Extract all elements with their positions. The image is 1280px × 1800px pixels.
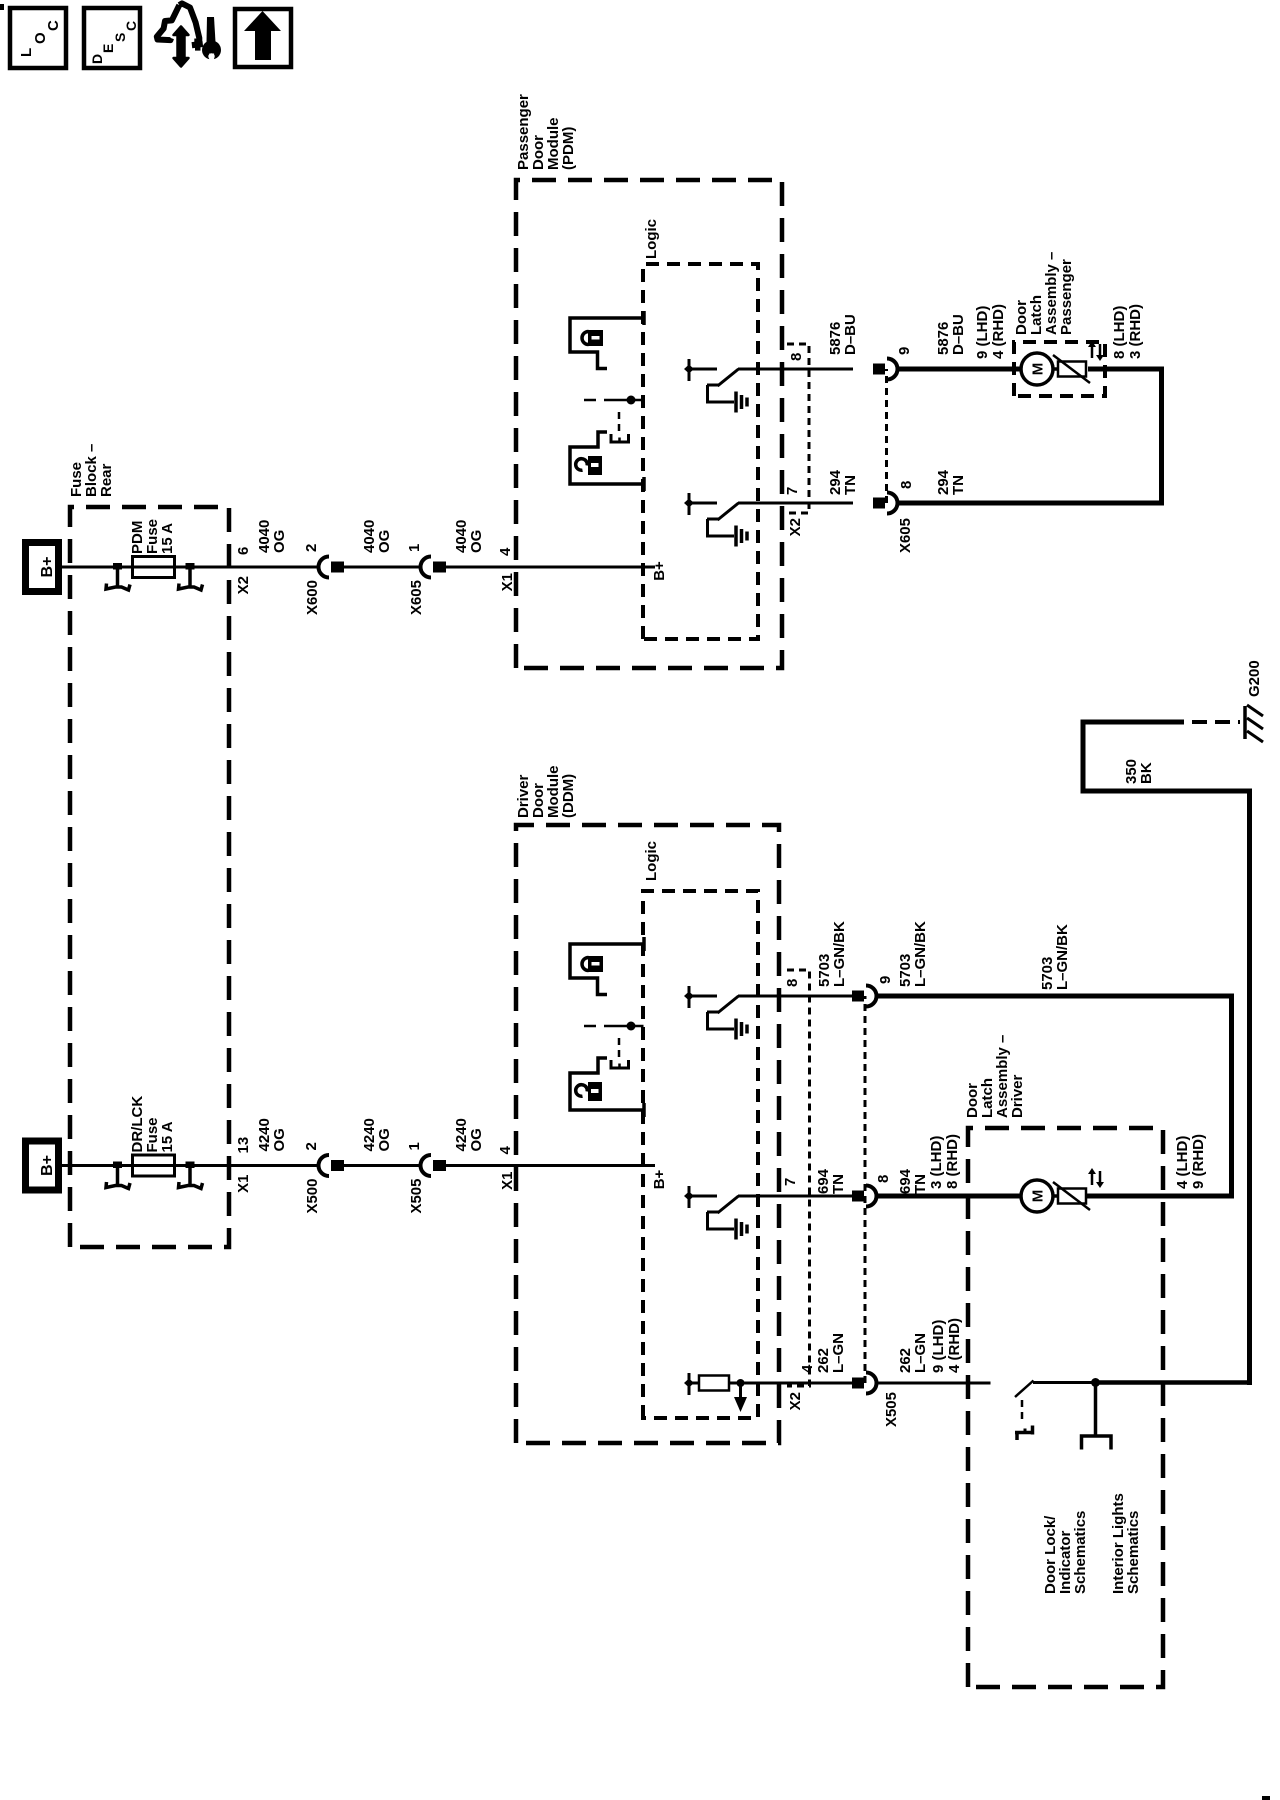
- status arrow: [739, 1386, 742, 1407]
- svg-text:E: E: [100, 44, 116, 53]
- wire DDM pin 7 (694): [738, 1195, 853, 1198]
- svg-text:TN: TN: [842, 475, 859, 495]
- ground: [734, 392, 738, 413]
- connector X500 (driver): [319, 1155, 330, 1176]
- svg-text:O: O: [32, 32, 49, 44]
- switch linkage fork: [1015, 1431, 1019, 1440]
- wire 262 to lock switch: [877, 1382, 991, 1385]
- door lock switch blade: [1015, 1381, 1034, 1398]
- PDM lock command bracket: [570, 318, 644, 369]
- svg-text:Logic: Logic: [643, 219, 660, 259]
- connector X605 (passenger): [421, 557, 432, 578]
- svg-text:X1: X1: [499, 1172, 516, 1190]
- svg-text:6: 6: [235, 547, 252, 555]
- svg-text:C: C: [45, 20, 62, 31]
- switch command tick at x=1431: [688, 359, 691, 381]
- svg-text:X600: X600: [304, 580, 321, 615]
- X2 connector bracket (DDM): [787, 970, 810, 1386]
- wire DDM pin 4 (262): [740, 1382, 853, 1385]
- svg-text:7: 7: [782, 1178, 799, 1186]
- ground G200: [1243, 706, 1247, 739]
- driver door latch box: [968, 1128, 1163, 1687]
- DDM lock command bracket: [570, 944, 644, 995]
- PDM unlock linkage fork: [611, 434, 629, 442]
- tap to interior lights: [1094, 1383, 1098, 1437]
- svg-text:9 (LHD): 9 (LHD): [974, 306, 991, 359]
- wire to G200 (dashed): [1192, 720, 1240, 724]
- B+ terminal (driver): [26, 1141, 59, 1190]
- DDM lock icon: [582, 958, 588, 971]
- svg-text:X605: X605: [897, 518, 914, 553]
- switch: [689, 368, 717, 371]
- motor M driver: [1021, 1180, 1053, 1212]
- wire motor return: [1086, 1194, 1234, 1199]
- svg-text:8: 8: [784, 979, 801, 987]
- page corner mark: [1262, 1796, 1270, 1800]
- svg-text:1: 1: [406, 544, 423, 552]
- connector X505 (driver): [421, 1155, 432, 1176]
- passenger door latch box: [1014, 342, 1105, 396]
- svg-text:G200: G200: [1246, 660, 1263, 697]
- wire (driver): [344, 1164, 420, 1167]
- svg-text:13: 13: [235, 1137, 252, 1154]
- svg-text:OG: OG: [271, 1128, 288, 1151]
- svg-text:8: 8: [875, 1175, 892, 1183]
- svg-text:Passenger: Passenger: [1058, 259, 1075, 335]
- fuse PDM 15 A (passenger): [133, 557, 175, 578]
- svg-text:(DDM): (DDM): [560, 774, 577, 818]
- DDM linkage dashes: [618, 1033, 621, 1057]
- svg-text:Rear: Rear: [98, 463, 115, 497]
- corner mark: [0, 4, 4, 10]
- svg-text:X2: X2: [787, 1392, 804, 1410]
- switch linkage dashes: [1021, 1400, 1024, 1422]
- junction: [737, 1379, 745, 1387]
- svg-text:(PDM): (PDM): [560, 127, 577, 170]
- wire lock switch common: [1033, 1381, 1096, 1384]
- svg-text:BK: BK: [1138, 762, 1155, 784]
- svg-text:B+: B+: [39, 1155, 56, 1176]
- svg-text:X1: X1: [499, 573, 516, 591]
- wire B+ to fuse (passenger): [62, 566, 133, 569]
- wire DDM pin 8 (5703): [738, 995, 853, 998]
- svg-text:8: 8: [788, 353, 805, 361]
- wire 694 to motor: [876, 1194, 1022, 1199]
- svg-text:4 (RHD): 4 (RHD): [946, 1318, 963, 1373]
- wire PDM pin 8 (5876): [738, 368, 853, 371]
- icon LOC button: [10, 8, 66, 68]
- svg-text:OG: OG: [468, 1128, 485, 1151]
- connector X505 pin 4: [852, 1378, 864, 1389]
- svg-text:X1: X1: [235, 1175, 252, 1193]
- ground: [734, 1019, 738, 1040]
- wire PDM pin 7 (294): [738, 502, 853, 505]
- switch: [689, 995, 717, 998]
- svg-text:D–BU: D–BU: [842, 314, 859, 355]
- svg-text:L–GN/BK: L–GN/BK: [831, 921, 848, 987]
- PDM lock icon: [582, 332, 588, 345]
- svg-text:4 (LHD): 4 (LHD): [1174, 1136, 1191, 1189]
- icon DESC button: [84, 8, 140, 68]
- fuse DR/LCK 15 A (driver): [133, 1155, 175, 1176]
- DDM lock command line: [584, 1025, 596, 1028]
- switch command tick at x=604: [688, 1186, 691, 1208]
- PTC passenger: [1053, 367, 1058, 371]
- wire B+ to fuse (driver): [62, 1164, 133, 1167]
- junction node: [1091, 1378, 1100, 1387]
- X605 connector line: [885, 369, 888, 503]
- icon arrows and wrench: [157, 3, 201, 47]
- PDM logic box: [643, 264, 758, 639]
- switch command tick at x=1297: [688, 493, 691, 515]
- svg-text:X2: X2: [787, 518, 804, 536]
- svg-text:9 (RHD): 9 (RHD): [1190, 1134, 1207, 1189]
- switch command tick at x=804: [688, 986, 691, 1008]
- wire (passenger): [344, 566, 420, 569]
- svg-text:OG: OG: [468, 530, 485, 553]
- B+ terminal (passenger): [26, 543, 59, 592]
- svg-text:D–BU: D–BU: [950, 314, 967, 355]
- wire 294 return: [897, 501, 1164, 506]
- ground: [734, 526, 738, 547]
- svg-text:C: C: [123, 21, 139, 31]
- svg-text:Schematics: Schematics: [1072, 1511, 1089, 1594]
- connector X505 pin 9: [852, 991, 864, 1002]
- fuse block box: [70, 507, 229, 1247]
- PTC driver: [1053, 1194, 1058, 1198]
- wire 5876 to latch: [897, 367, 1022, 372]
- svg-text:TN: TN: [912, 1174, 929, 1194]
- motor M passenger: [1021, 353, 1053, 385]
- connector X605 pin 9: [873, 364, 885, 375]
- DDM unlock icon: [576, 1085, 588, 1097]
- svg-text:B+: B+: [39, 557, 56, 578]
- X2 connector bracket (PDM): [787, 344, 809, 513]
- svg-text:B+: B+: [651, 561, 668, 581]
- wire 5703 to motor loop: [876, 994, 1234, 999]
- svg-text:7: 7: [784, 487, 801, 495]
- svg-text:4: 4: [497, 547, 514, 556]
- PDM unlock command bracket: [570, 432, 644, 484]
- svg-text:TN: TN: [830, 1174, 847, 1194]
- svg-text:M: M: [1030, 1190, 1047, 1203]
- svg-text:L–GN/BK: L–GN/BK: [1054, 924, 1071, 990]
- svg-text:15 A: 15 A: [159, 523, 176, 554]
- X505 connector line: [864, 996, 867, 1383]
- svg-text:OG: OG: [376, 530, 393, 553]
- svg-text:1: 1: [406, 1142, 423, 1150]
- svg-text:D: D: [89, 54, 105, 64]
- svg-text:S: S: [112, 33, 128, 42]
- DDM door lock status resistor: [688, 1373, 691, 1395]
- connector X600 (passenger): [319, 557, 330, 578]
- PDM box: [516, 180, 782, 668]
- svg-text:OG: OG: [271, 530, 288, 553]
- svg-text:Driver: Driver: [1009, 1074, 1026, 1118]
- PDM unlock icon: [576, 459, 588, 471]
- switch: [689, 1195, 717, 1198]
- svg-text:TN: TN: [950, 475, 967, 495]
- interior lights fork: [1082, 1436, 1112, 1450]
- DDM logic box: [643, 891, 758, 1418]
- wire (driver): [446, 1164, 655, 1167]
- PDM lock command line: [584, 399, 596, 402]
- svg-text:M: M: [1030, 363, 1047, 376]
- wire 350 BK: [1096, 1380, 1253, 1385]
- icon up arrow button: [235, 9, 291, 67]
- svg-text:Logic: Logic: [643, 841, 660, 881]
- svg-text:Schematics: Schematics: [1125, 1511, 1142, 1594]
- PDM linkage dashes: [618, 407, 621, 431]
- svg-text:X2: X2: [235, 576, 252, 594]
- svg-text:X505: X505: [883, 1392, 900, 1427]
- svg-text:4: 4: [497, 1146, 514, 1155]
- svg-text:L–GN: L–GN: [912, 1333, 929, 1373]
- svg-text:9 (LHD): 9 (LHD): [930, 1320, 947, 1373]
- svg-text:X500: X500: [304, 1179, 321, 1214]
- DDM box: [516, 825, 779, 1443]
- svg-text:9: 9: [877, 976, 894, 984]
- svg-text:X605: X605: [408, 580, 425, 615]
- DDM unlock linkage fork: [611, 1060, 629, 1068]
- connector X505 pin 8: [852, 1191, 864, 1202]
- svg-text:3 (RHD): 3 (RHD): [1127, 304, 1144, 359]
- switch: [689, 502, 717, 505]
- DDM unlock command bracket: [570, 1058, 644, 1110]
- svg-text:B+: B+: [651, 1169, 668, 1189]
- svg-text:8: 8: [898, 481, 915, 489]
- svg-text:L–GN: L–GN: [830, 1333, 847, 1373]
- svg-text:L: L: [18, 48, 35, 57]
- ground: [734, 1219, 738, 1240]
- svg-text:4: 4: [799, 1364, 816, 1373]
- connector X605 pin 8: [873, 498, 885, 509]
- svg-text:15 A: 15 A: [159, 1121, 176, 1152]
- svg-text:8 (RHD): 8 (RHD): [944, 1134, 961, 1189]
- svg-text:2: 2: [303, 544, 320, 552]
- svg-text:X505: X505: [408, 1179, 425, 1214]
- svg-text:8 (LHD): 8 (LHD): [1111, 306, 1128, 359]
- svg-text:3 (LHD): 3 (LHD): [928, 1136, 945, 1189]
- svg-text:L–GN/BK: L–GN/BK: [912, 921, 929, 987]
- svg-text:OG: OG: [376, 1128, 393, 1151]
- svg-text:4 (RHD): 4 (RHD): [990, 304, 1007, 359]
- wire (passenger): [446, 566, 655, 569]
- svg-text:2: 2: [303, 1142, 320, 1150]
- svg-text:9: 9: [896, 347, 913, 355]
